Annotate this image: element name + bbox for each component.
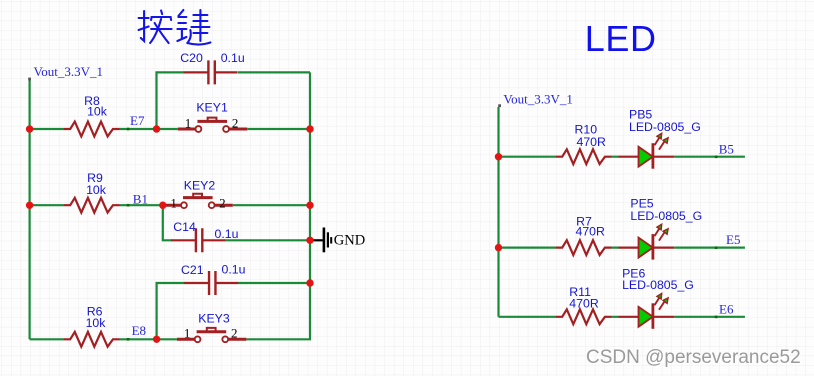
svg-text:1: 1 [170,196,177,211]
svg-text:Vout_3.3V_1: Vout_3.3V_1 [503,92,572,107]
svg-text:C20: C20 [180,51,203,65]
svg-text:KEY1: KEY1 [196,101,228,115]
svg-text:470R: 470R [569,296,599,310]
svg-text:470R: 470R [575,224,605,238]
svg-text:0.1u: 0.1u [222,263,246,277]
svg-text:KEY3: KEY3 [198,312,230,326]
svg-text:LED-0805_G: LED-0805_G [630,209,702,223]
svg-text:B1: B1 [133,191,148,206]
svg-text:E8: E8 [132,323,146,338]
svg-text:2: 2 [232,115,239,130]
svg-text:KEY2: KEY2 [184,179,216,193]
svg-text:0.1u: 0.1u [215,227,239,241]
svg-text:LED-0805_G: LED-0805_G [629,120,701,134]
svg-text:10k: 10k [86,183,107,197]
svg-text:E7: E7 [130,113,145,128]
svg-text:C14: C14 [173,220,196,234]
svg-text:GND: GND [334,233,365,249]
svg-text:E6: E6 [719,302,734,317]
svg-text:2: 2 [231,326,238,341]
svg-text:E5: E5 [726,232,740,247]
svg-text:CSDN @perseverance52: CSDN @perseverance52 [586,347,801,368]
svg-text:0.1u: 0.1u [221,51,245,65]
svg-text:1: 1 [185,115,192,130]
svg-text:LED-0805_G: LED-0805_G [622,278,694,292]
svg-text:LED: LED [585,18,657,59]
svg-text:B5: B5 [719,142,734,157]
svg-text:1: 1 [184,326,191,341]
svg-text:2: 2 [219,196,226,211]
svg-text:C21: C21 [181,263,204,277]
svg-text:10k: 10k [87,105,108,119]
svg-text:Vout_3.3V_1: Vout_3.3V_1 [34,64,103,79]
svg-text:10k: 10k [86,316,107,330]
svg-text:470R: 470R [576,135,606,149]
